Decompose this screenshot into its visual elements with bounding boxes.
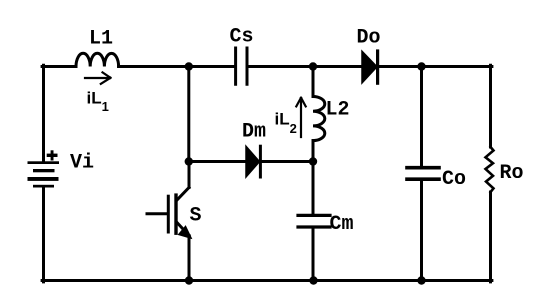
node dot G xyxy=(185,276,193,284)
wire L1 to Cs xyxy=(119,65,234,68)
wire Co to bottom rail xyxy=(420,181,423,281)
wire left rail top xyxy=(42,65,45,161)
svg-text:Cs: Cs xyxy=(230,26,254,49)
transistor S gate bar xyxy=(167,196,170,232)
svg-text:L1: L1 xyxy=(89,28,113,51)
node dot D xyxy=(185,157,193,165)
svg-text:Ro: Ro xyxy=(500,162,524,185)
transistor S (IGBT) collector stub xyxy=(188,162,191,188)
inductor L2 xyxy=(313,97,325,141)
capacitor Cs xyxy=(236,48,247,84)
transistor S emitter arrowhead xyxy=(179,227,191,239)
capacitor Cm xyxy=(298,215,330,227)
wire right rail bottom xyxy=(489,192,492,282)
svg-text:S: S xyxy=(190,205,202,228)
wire Dm horizontal xyxy=(189,160,313,163)
inductor L1 xyxy=(76,53,119,66)
wire Cs to Do xyxy=(249,65,362,68)
node dot F xyxy=(309,276,317,284)
capacitor Co xyxy=(407,168,439,180)
wire top-left to L1 xyxy=(42,65,76,68)
svg-text:Vi: Vi xyxy=(70,152,94,175)
transistor S gate lead xyxy=(147,212,167,215)
node dot E xyxy=(309,157,317,165)
transistor S emitter stub xyxy=(188,236,191,282)
wire Cm to bottom rail xyxy=(312,229,315,281)
transistor S emitter diagonal xyxy=(177,222,190,236)
svg-text:Do: Do xyxy=(357,27,381,50)
svg-text:Co: Co xyxy=(442,168,466,191)
arrow iL2 xyxy=(296,98,305,137)
arrow iL1 xyxy=(85,72,111,83)
node dot A xyxy=(185,62,193,70)
wire node E to Cm xyxy=(312,162,315,214)
svg-text:Cm: Cm xyxy=(330,213,354,236)
transistor S collector diagonal xyxy=(177,188,190,201)
battery plus sign xyxy=(47,150,58,160)
diode Dm xyxy=(246,146,260,177)
wire right rail top xyxy=(489,65,492,147)
transistor S body bar xyxy=(174,195,177,233)
wire node B to L2 xyxy=(312,67,315,97)
wire bottom rail xyxy=(42,279,492,282)
svg-text:Dm: Dm xyxy=(242,121,266,144)
wire node C to Co xyxy=(420,67,423,167)
wire left rail bottom xyxy=(42,188,45,282)
diode Do xyxy=(362,51,377,83)
node dot H xyxy=(417,276,425,284)
wire L2 to Dm node xyxy=(312,141,315,162)
battery Vi xyxy=(28,161,60,187)
node dot C xyxy=(417,62,425,70)
wire node A down to Dm xyxy=(187,67,190,162)
node dot B xyxy=(309,62,317,70)
resistor Ro xyxy=(486,147,494,192)
svg-text:L2: L2 xyxy=(326,99,350,122)
wire Do to right corner xyxy=(379,65,492,68)
